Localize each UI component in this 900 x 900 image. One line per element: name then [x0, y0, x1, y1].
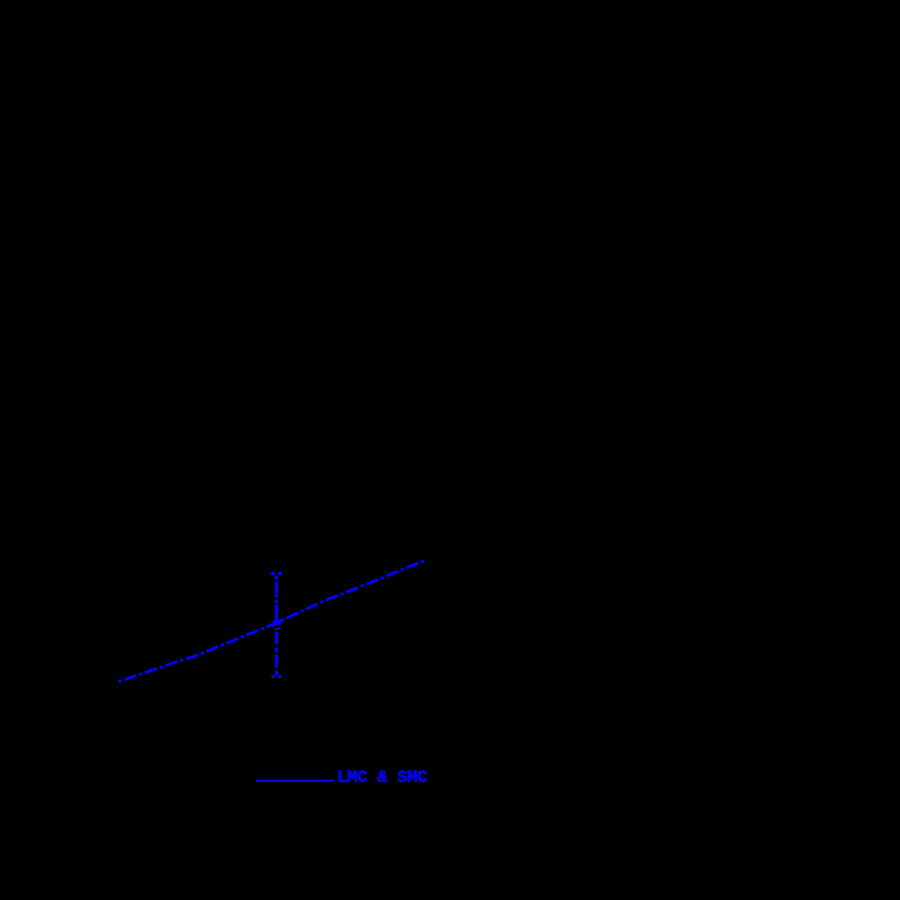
- fitted relation line (dash-dot, LMC & SMC): [119, 560, 425, 681]
- marker lower sliver: [274, 626, 282, 630]
- svg-text:LMC & SMC: LMC & SMC: [337, 769, 427, 788]
- error bar vertical line (dash-dot segments): [275, 576, 278, 675]
- legend line: [256, 779, 335, 782]
- data point marker blob: [271, 620, 282, 627]
- error bar bottom cap: [271, 675, 282, 678]
- error bar top cap: [271, 572, 282, 575]
